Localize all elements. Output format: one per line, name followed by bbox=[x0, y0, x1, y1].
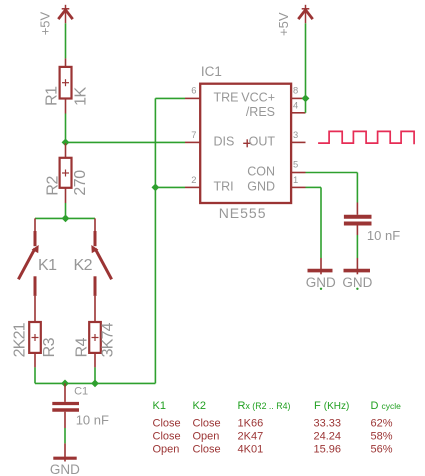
svg-text:K2: K2 bbox=[74, 257, 93, 274]
svg-text:24.24: 24.24 bbox=[314, 431, 342, 443]
resistor R4 bbox=[89, 322, 101, 367]
junction VCC node bbox=[302, 95, 310, 103]
svg-text:270: 270 bbox=[72, 170, 89, 196]
wire down to C2 bbox=[356, 173, 358, 203]
svg-text:3: 3 bbox=[293, 129, 298, 140]
wire +5V to R1 bbox=[65, 23, 67, 58]
node pin-end dot (GND C2) bbox=[356, 288, 358, 290]
ground GND (pin 1) bbox=[308, 258, 333, 274]
table row 1 bbox=[153, 418, 393, 430]
svg-text:TRE: TRE bbox=[214, 90, 239, 104]
svg-text:TRI: TRI bbox=[214, 180, 234, 194]
svg-text:K1: K1 bbox=[38, 257, 57, 274]
svg-text:OUT: OUT bbox=[249, 135, 276, 149]
junction TRI node bbox=[152, 184, 160, 192]
svg-text:1K: 1K bbox=[73, 87, 90, 106]
resistor R2 bbox=[60, 143, 72, 203]
svg-text:+5V: +5V bbox=[276, 12, 291, 36]
wire R4 to bottom net bbox=[94, 367, 96, 383]
wire pin 5 to C2 bbox=[306, 172, 358, 174]
svg-text:2K47: 2K47 bbox=[238, 431, 264, 443]
svg-text:VCC+: VCC+ bbox=[241, 90, 275, 104]
svg-text:62%: 62% bbox=[371, 418, 393, 430]
svg-text:4K01: 4K01 bbox=[238, 444, 264, 456]
svg-text:IC1: IC1 bbox=[201, 64, 222, 79]
pin 2 TRI stub bbox=[185, 186, 200, 188]
svg-text:K2: K2 bbox=[193, 400, 206, 412]
pin 8 VCC stub bbox=[291, 97, 306, 99]
pin 1 GND stub bbox=[291, 186, 306, 188]
wire switch node K1-K2 bbox=[35, 217, 95, 219]
svg-text:7: 7 bbox=[191, 129, 196, 140]
wire TRE vertical net bbox=[154, 98, 156, 383]
svg-text:Close: Close bbox=[193, 418, 221, 430]
supply +5V symbol P2 bbox=[298, 5, 312, 24]
wire +5V to pin 8 bbox=[305, 23, 307, 98]
ground GND (C1) bbox=[53, 443, 76, 461]
waveform output square wave bbox=[318, 131, 414, 144]
svg-text:NE555: NE555 bbox=[219, 205, 267, 221]
svg-text:DIS: DIS bbox=[214, 135, 235, 149]
junction node DIS bbox=[62, 139, 70, 147]
pin 3 OUT stub bbox=[291, 141, 306, 143]
table row 3 bbox=[153, 444, 393, 456]
svg-text:+5V: +5V bbox=[37, 11, 52, 35]
pin 7 DIS stub bbox=[185, 141, 200, 143]
svg-text:K1: K1 bbox=[153, 400, 166, 412]
svg-text:5: 5 bbox=[293, 159, 298, 170]
wire R2 to switch node bbox=[65, 203, 67, 218]
junction switch node bbox=[62, 215, 70, 223]
capacitor C1 bbox=[52, 383, 79, 428]
resistor R3 bbox=[29, 322, 41, 367]
svg-text:R4: R4 bbox=[73, 337, 90, 357]
svg-text:6: 6 bbox=[191, 85, 196, 96]
svg-text:Close: Close bbox=[153, 418, 181, 430]
wire pin 1 to GND bbox=[306, 186, 322, 188]
svg-text:R1: R1 bbox=[43, 86, 60, 106]
IC1 origin cross bbox=[243, 139, 251, 147]
svg-text:GND: GND bbox=[247, 180, 275, 194]
op-amp IC1 NE555 body bbox=[200, 84, 291, 203]
svg-text:Rx (R2 .. R4): Rx (R2 .. R4) bbox=[238, 400, 291, 412]
svg-text:4: 4 bbox=[293, 99, 298, 110]
svg-text:1: 1 bbox=[293, 174, 298, 185]
switch K1 bbox=[18, 218, 38, 322]
pin 4 /RES stub bbox=[291, 112, 306, 114]
svg-text:33.33: 33.33 bbox=[314, 418, 342, 430]
svg-text:1K66: 1K66 bbox=[238, 418, 264, 430]
svg-text:56%: 56% bbox=[371, 444, 393, 456]
pin 6 TRE stub bbox=[185, 97, 200, 99]
node pin-end dot (GND pin1) bbox=[320, 288, 322, 290]
svg-text:2K21: 2K21 bbox=[12, 322, 29, 357]
svg-text:C1: C1 bbox=[74, 386, 88, 398]
svg-text:F (KHz): F (KHz) bbox=[314, 400, 349, 412]
svg-text:GND: GND bbox=[50, 462, 80, 476]
svg-text:Open: Open bbox=[153, 444, 180, 456]
svg-text:Close: Close bbox=[193, 444, 221, 456]
wire C2 to GND bbox=[356, 235, 358, 258]
supply +5V symbol P1 bbox=[58, 5, 72, 24]
wire TRI to pin 2 bbox=[155, 186, 185, 188]
resistor R1 bbox=[60, 58, 72, 113]
wire C1 to GND bbox=[64, 428, 66, 443]
svg-text:Open: Open bbox=[193, 431, 220, 443]
junction C1 node bbox=[61, 380, 69, 388]
svg-text:D cycle: D cycle bbox=[371, 400, 402, 412]
ground GND (C2) bbox=[344, 258, 371, 274]
svg-text:3K74: 3K74 bbox=[100, 322, 117, 357]
switch K2 bbox=[91, 218, 111, 322]
wire down to GND bbox=[320, 187, 322, 258]
table row 2 bbox=[153, 431, 393, 443]
svg-text:10 nF: 10 nF bbox=[367, 228, 400, 243]
svg-text:8: 8 bbox=[293, 85, 298, 96]
capacitor C2 10nF bbox=[344, 203, 372, 236]
wire node DIS to pin 7 bbox=[66, 141, 186, 143]
svg-text:CON: CON bbox=[247, 164, 275, 178]
pin 5 CON stub bbox=[291, 172, 306, 174]
svg-text:R2: R2 bbox=[45, 176, 62, 196]
svg-text:R3: R3 bbox=[41, 337, 58, 357]
wire R3 to bottom net bbox=[34, 367, 36, 383]
svg-text:15.96: 15.96 bbox=[314, 444, 342, 456]
svg-text:2: 2 bbox=[191, 174, 196, 185]
svg-text:/RES: /RES bbox=[246, 105, 275, 119]
wire pin 8 to pin 4 bbox=[305, 98, 307, 112]
junction R4 node bbox=[91, 380, 99, 388]
svg-text:10 nF: 10 nF bbox=[76, 413, 109, 428]
wire TRE to pin 6 bbox=[155, 97, 185, 99]
wire R1 to node DIS bbox=[65, 114, 67, 143]
svg-text:58%: 58% bbox=[371, 431, 393, 443]
wire bottom net TRE/TRI bbox=[35, 382, 155, 384]
svg-text:Close: Close bbox=[153, 431, 181, 443]
